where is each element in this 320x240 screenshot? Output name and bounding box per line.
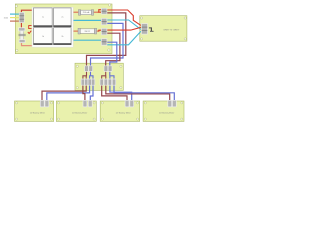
svg-text:1/2 Battery Meter: 1/2 Battery Meter [116,112,132,115]
svg-text:SW 12: SW 12 [84,31,90,33]
svg-text:1/2 Battery Meter: 1/2 Battery Meter [30,112,46,115]
svg-text:100k: 100k [4,17,8,19]
svg-text:1/2 Battery Meter: 1/2 Battery Meter [72,112,88,115]
svg-text:1b: 1b [42,36,44,38]
svg-text:2b: 2b [61,36,63,38]
svg-text:GREY 'N' GREY: GREY 'N' GREY [163,29,180,31]
svg-text:250 mA: 250 mA [83,11,90,14]
svg-text:1/2 Battery Meter: 1/2 Battery Meter [159,112,175,115]
